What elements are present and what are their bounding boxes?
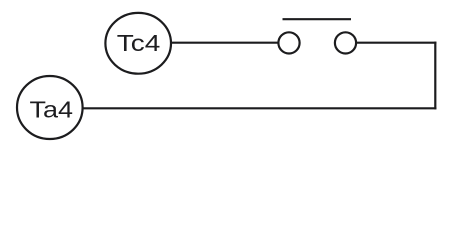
timer coil Tc4 bbox=[105, 13, 171, 74]
contact terminal circle left bbox=[278, 32, 299, 53]
svg-text:Ta4: Ta4 bbox=[30, 97, 74, 123]
wire Tc4 to contact bbox=[171, 42, 279, 44]
contact bar bbox=[283, 18, 352, 20]
coil Ta4 bbox=[17, 76, 83, 139]
wire bottom run to Ta4 bbox=[83, 107, 437, 109]
contact terminal circle right bbox=[335, 32, 356, 53]
wire right side (vertical) bbox=[434, 42, 436, 110]
svg-text:Tc4: Tc4 bbox=[117, 30, 161, 56]
wire contact to right corner (horizontal) bbox=[357, 42, 437, 44]
